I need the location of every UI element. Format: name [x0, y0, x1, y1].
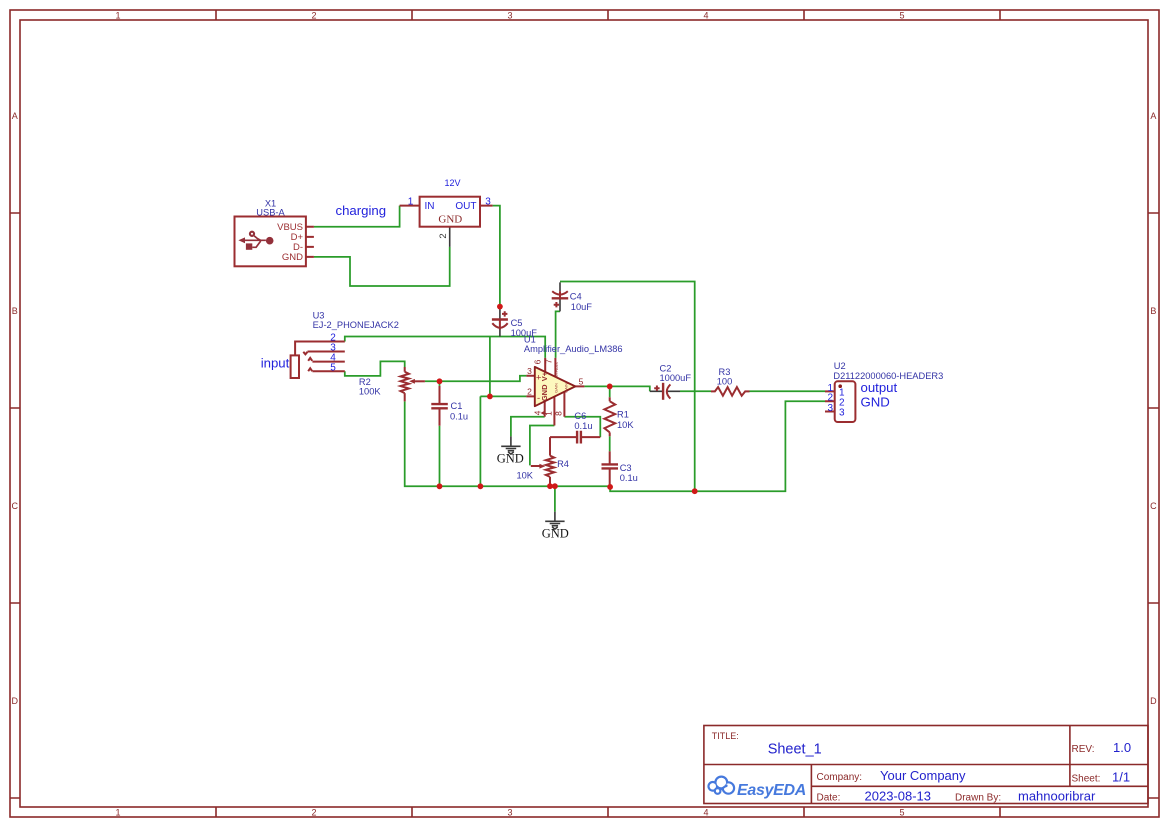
- svg-text:3: 3: [839, 407, 845, 418]
- svg-text:100K: 100K: [359, 387, 382, 397]
- svg-text:B: B: [12, 306, 18, 316]
- svg-text:0.1u: 0.1u: [450, 411, 468, 421]
- svg-text:C3: C3: [620, 463, 632, 473]
- svg-text:C1: C1: [451, 401, 463, 411]
- svg-text:mahnooribrar: mahnooribrar: [1018, 789, 1096, 804]
- svg-text:Sheet:: Sheet:: [1072, 774, 1101, 785]
- svg-text:A: A: [1150, 111, 1156, 121]
- svg-text:5: 5: [579, 377, 584, 387]
- svg-text:10K: 10K: [516, 470, 533, 480]
- svg-text:2023-08-13: 2023-08-13: [865, 789, 932, 804]
- svg-text:C5: C5: [511, 318, 523, 328]
- svg-text:1: 1: [408, 196, 414, 207]
- svg-text:Drawn By:: Drawn By:: [955, 793, 1001, 804]
- svg-text:EasyEDA: EasyEDA: [737, 782, 806, 799]
- svg-text:GAIN: GAIN: [564, 383, 569, 393]
- svg-text:REV:: REV:: [1072, 744, 1095, 755]
- svg-text:5: 5: [899, 808, 904, 818]
- svg-text:1: 1: [115, 11, 120, 21]
- svg-text:C: C: [12, 501, 19, 511]
- svg-text:R3: R3: [719, 367, 731, 377]
- svg-text:BYPASS: BYPASS: [554, 362, 559, 378]
- svg-text:GND: GND: [497, 452, 524, 466]
- svg-text:2: 2: [311, 808, 316, 818]
- svg-text:5: 5: [330, 362, 336, 373]
- svg-text:0.1u: 0.1u: [574, 421, 592, 431]
- svg-text:Date:: Date:: [817, 793, 841, 804]
- svg-text:EJ-2_PHONEJACK2: EJ-2_PHONEJACK2: [313, 320, 399, 330]
- svg-text:Your Company: Your Company: [880, 768, 966, 783]
- svg-text:output: output: [861, 380, 898, 395]
- svg-text:C4: C4: [570, 292, 582, 302]
- svg-text:5: 5: [899, 11, 904, 21]
- svg-text:1.0: 1.0: [1113, 740, 1131, 755]
- svg-text:D: D: [12, 696, 19, 706]
- svg-text:V+: V+: [540, 371, 549, 381]
- svg-text:3: 3: [827, 403, 833, 414]
- svg-text:GND: GND: [438, 214, 462, 226]
- svg-text:1000uF: 1000uF: [660, 373, 692, 383]
- svg-text:100: 100: [717, 376, 733, 386]
- svg-text:R1: R1: [617, 410, 629, 420]
- svg-text:Amplifier_Audio_LM386: Amplifier_Audio_LM386: [524, 344, 623, 354]
- svg-text:10K: 10K: [617, 420, 634, 430]
- svg-text:0.1u: 0.1u: [620, 473, 638, 483]
- svg-text:B: B: [1150, 306, 1156, 316]
- svg-text:C6: C6: [574, 411, 586, 421]
- svg-text:1/1: 1/1: [1112, 770, 1130, 785]
- svg-text:input: input: [261, 355, 290, 370]
- svg-text:8: 8: [554, 411, 564, 416]
- svg-text:OUT: OUT: [455, 201, 476, 212]
- svg-text:2: 2: [527, 387, 532, 397]
- svg-text:2: 2: [438, 233, 449, 238]
- svg-text:D: D: [1150, 696, 1157, 706]
- svg-text:GAIN: GAIN: [554, 383, 559, 393]
- svg-text:TITLE:: TITLE:: [712, 731, 739, 741]
- svg-text:2: 2: [311, 11, 316, 21]
- svg-text:R4: R4: [557, 459, 569, 469]
- svg-text:GND: GND: [282, 252, 303, 263]
- svg-text:1: 1: [543, 411, 553, 416]
- svg-text:6: 6: [533, 359, 543, 364]
- svg-text:Sheet_1: Sheet_1: [768, 742, 822, 758]
- svg-text:4: 4: [532, 410, 542, 415]
- svg-text:U2: U2: [834, 361, 846, 371]
- svg-text:U3: U3: [313, 310, 325, 320]
- svg-text:charging: charging: [336, 203, 387, 218]
- svg-text:4: 4: [703, 11, 708, 21]
- svg-text:GND: GND: [540, 384, 549, 401]
- svg-text:Company:: Company:: [817, 772, 863, 783]
- svg-text:A: A: [12, 111, 18, 121]
- svg-text:3: 3: [507, 808, 512, 818]
- svg-text:GND: GND: [542, 526, 569, 540]
- svg-text:R2: R2: [359, 377, 371, 387]
- svg-text:1: 1: [115, 808, 120, 818]
- svg-text:3: 3: [507, 11, 512, 21]
- svg-text:12V: 12V: [445, 178, 461, 188]
- svg-text:3: 3: [485, 196, 491, 207]
- svg-text:7: 7: [543, 359, 553, 364]
- svg-text:GND: GND: [861, 395, 890, 410]
- svg-text:3: 3: [527, 366, 532, 376]
- svg-text:C2: C2: [660, 364, 672, 374]
- svg-text:C: C: [1150, 501, 1157, 511]
- svg-text:IN: IN: [425, 201, 435, 212]
- svg-text:4: 4: [703, 808, 708, 818]
- svg-text:USB-A: USB-A: [256, 208, 285, 218]
- svg-text:10uF: 10uF: [571, 302, 593, 312]
